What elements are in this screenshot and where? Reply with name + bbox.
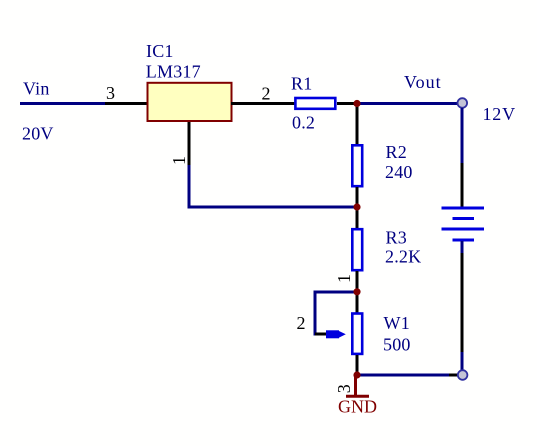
wire ADJ net from IC1 pin1 [189, 165, 357, 207]
resistor R1 [295, 98, 335, 109]
svg-text:Vout: Vout [404, 72, 442, 92]
pin 3 of W1 [356, 355, 359, 375]
svg-text:W1: W1 [384, 313, 410, 333]
resistor R3 [352, 229, 362, 270]
svg-text:R3: R3 [386, 228, 407, 248]
svg-text:20V: 20V [22, 124, 54, 144]
svg-text:LM317: LM317 [146, 61, 201, 81]
pin 1 of IC1 [188, 122, 191, 167]
pin of R3 bottom [356, 271, 359, 292]
svg-text:Vin: Vin [23, 79, 50, 99]
svg-text:R1: R1 [291, 74, 312, 94]
pin of R2 top [356, 103, 359, 145]
svg-text:240: 240 [385, 162, 413, 182]
junction at R1/R2/Vout [353, 100, 360, 107]
voltage regulator IC1 [148, 83, 232, 121]
svg-text:2.2K: 2.2K [385, 247, 421, 267]
svg-text:3: 3 [106, 83, 115, 103]
junction at R2/R3/ADJ [353, 203, 360, 210]
svg-text:1: 1 [334, 274, 354, 283]
battery B1 [442, 208, 485, 240]
ground symbol bar [346, 395, 369, 398]
svg-text:3: 3 [334, 384, 354, 393]
pin 2 stub of W1 [315, 333, 327, 336]
svg-text:2: 2 [297, 313, 306, 333]
junction at R3/W1 [353, 288, 360, 295]
pin of R3 top [356, 208, 359, 229]
terminal GND side [458, 370, 468, 380]
pin of battery bottom [461, 253, 464, 353]
svg-text:GND: GND [338, 397, 377, 417]
pin of battery top [461, 163, 464, 207]
svg-text:R2: R2 [386, 142, 407, 162]
junction at W1/GND [353, 371, 360, 378]
pin 2 of IC1 [231, 102, 295, 105]
wire Vin net [20, 102, 107, 105]
pin of R2 bottom [356, 187, 359, 208]
svg-text:12V: 12V [483, 104, 516, 124]
pin of W1 top [356, 292, 359, 313]
ground symbol stem [354, 377, 357, 396]
svg-text:2: 2 [262, 84, 271, 104]
pin of bottom terminal [449, 374, 458, 377]
pin 3 of IC1 [105, 102, 147, 105]
wire W1 wiper bracket [315, 292, 357, 334]
wire Vout to battery [461, 108, 464, 165]
wire GND net to terminal [357, 374, 450, 377]
svg-text:1: 1 [169, 156, 189, 165]
potentiometer W1 body [352, 314, 362, 354]
resistor R2 [352, 145, 362, 186]
pin of R1 right [337, 102, 356, 105]
svg-text:0.2: 0.2 [292, 113, 315, 133]
wire battery bottom stub [461, 241, 464, 254]
potentiometer W1 wiper arrow [326, 330, 346, 338]
svg-text:500: 500 [383, 335, 411, 355]
terminal Vout [458, 98, 468, 108]
wire Vout net [357, 102, 457, 105]
wire battery to bottom terminal [461, 352, 464, 371]
svg-text:IC1: IC1 [146, 41, 174, 61]
